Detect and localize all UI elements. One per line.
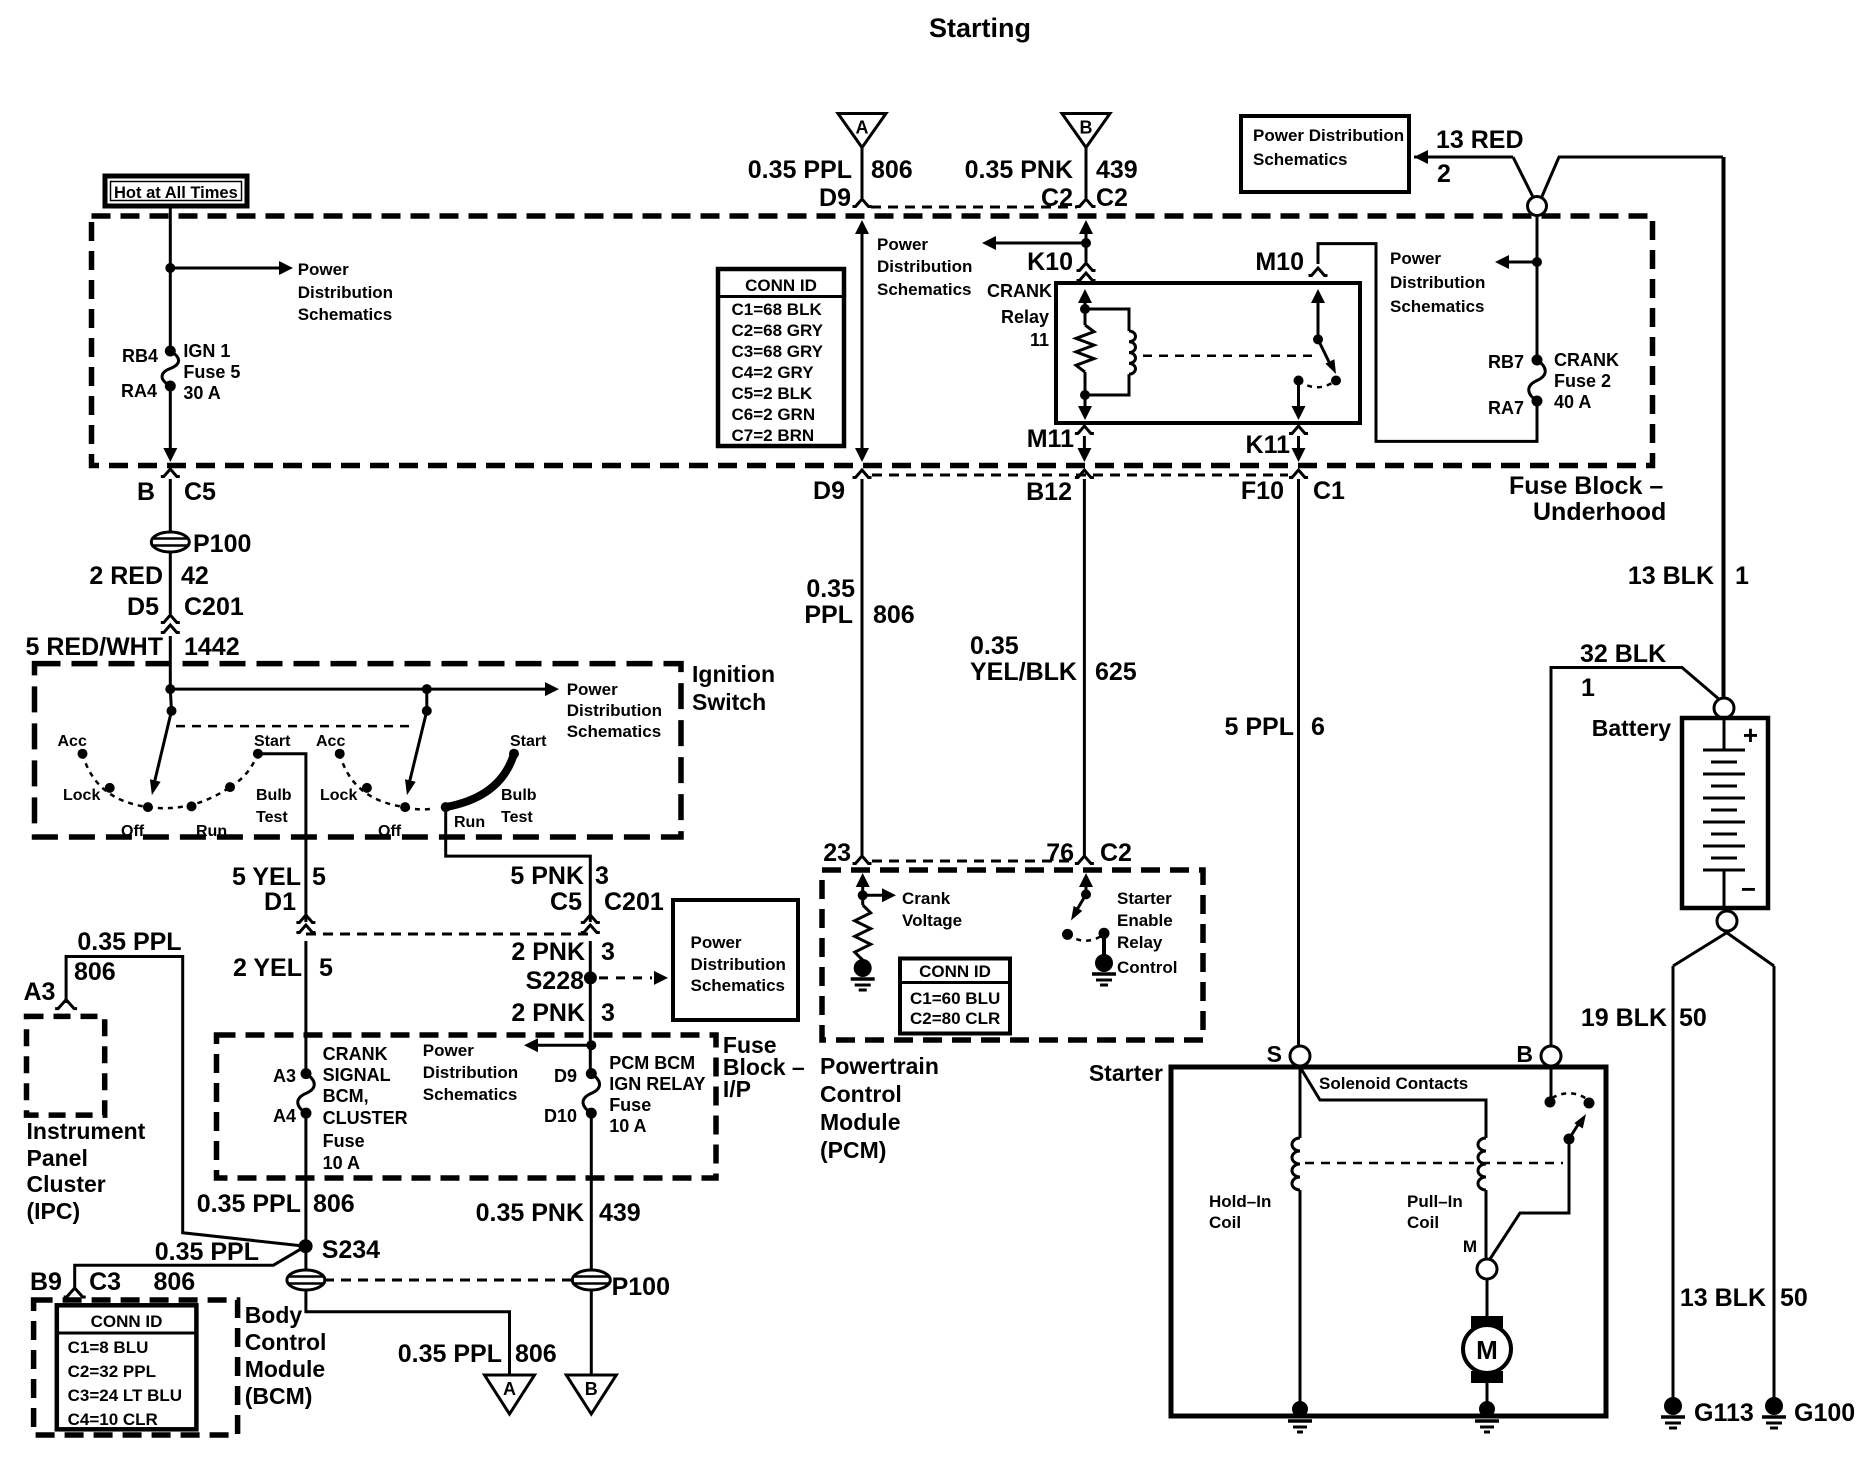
svg-text:M: M xyxy=(1463,1237,1477,1256)
svg-text:1442: 1442 xyxy=(184,633,240,661)
svg-text:D10: D10 xyxy=(544,1106,577,1126)
svg-text:76: 76 xyxy=(1046,839,1074,867)
svg-text:RB7: RB7 xyxy=(1488,352,1524,372)
svg-text:806: 806 xyxy=(74,958,116,986)
svg-text:C4=10 CLR: C4=10 CLR xyxy=(68,1410,158,1429)
svg-text:Power: Power xyxy=(298,260,349,279)
svg-text:13 RED: 13 RED xyxy=(1436,126,1524,154)
svg-text:Fuse Block –: Fuse Block – xyxy=(1509,472,1663,500)
svg-text:Distribution: Distribution xyxy=(1390,273,1485,292)
svg-text:Panel: Panel xyxy=(27,1145,88,1171)
svg-text:(BCM): (BCM) xyxy=(245,1383,313,1409)
svg-text:D9: D9 xyxy=(813,477,845,505)
svg-text:Schematics: Schematics xyxy=(567,722,662,741)
svg-text:42: 42 xyxy=(181,562,209,590)
svg-text:Test: Test xyxy=(501,809,533,826)
svg-text:439: 439 xyxy=(1096,156,1138,184)
svg-text:3: 3 xyxy=(601,938,615,966)
svg-text:G113: G113 xyxy=(1694,1399,1754,1427)
svg-text:Distribution: Distribution xyxy=(877,257,972,276)
svg-text:F10: F10 xyxy=(1241,477,1284,505)
svg-text:S: S xyxy=(1267,1041,1282,1067)
svg-text:Start: Start xyxy=(510,733,547,750)
svg-text:Power: Power xyxy=(1390,249,1441,268)
svg-text:B: B xyxy=(1516,1041,1533,1067)
svg-text:5 YEL: 5 YEL xyxy=(232,863,301,891)
svg-text:RB4: RB4 xyxy=(122,346,158,366)
svg-text:Pull–In: Pull–In xyxy=(1407,1192,1463,1211)
svg-text:Powertrain: Powertrain xyxy=(820,1053,939,1079)
svg-text:32 BLK: 32 BLK xyxy=(1580,640,1666,668)
svg-text:Enable: Enable xyxy=(1117,911,1173,930)
svg-text:5 PPL: 5 PPL xyxy=(1225,713,1294,741)
svg-text:10 A: 10 A xyxy=(323,1153,360,1173)
svg-text:RA7: RA7 xyxy=(1488,398,1524,418)
svg-text:CONN ID: CONN ID xyxy=(745,276,817,295)
svg-text:10 A: 10 A xyxy=(609,1116,646,1136)
svg-text:30 A: 30 A xyxy=(183,383,220,403)
svg-text:D5: D5 xyxy=(127,593,159,621)
svg-text:D9: D9 xyxy=(554,1066,577,1086)
svg-text:Acc: Acc xyxy=(316,733,345,750)
svg-text:Fuse: Fuse xyxy=(609,1095,651,1115)
svg-text:806: 806 xyxy=(154,1268,196,1296)
svg-text:0.35 PNK: 0.35 PNK xyxy=(476,1199,584,1227)
svg-text:Off: Off xyxy=(378,823,402,840)
svg-text:Crank: Crank xyxy=(902,889,951,908)
svg-text:Switch: Switch xyxy=(692,689,766,715)
svg-text:+: + xyxy=(1743,720,1758,750)
svg-text:Bulb: Bulb xyxy=(256,787,292,804)
svg-text:YEL/BLK: YEL/BLK xyxy=(970,658,1077,686)
svg-text:2 PNK: 2 PNK xyxy=(511,999,585,1027)
svg-text:C201: C201 xyxy=(604,888,664,916)
svg-text:625: 625 xyxy=(1095,658,1137,686)
svg-text:2 RED: 2 RED xyxy=(89,562,163,590)
svg-text:3: 3 xyxy=(595,862,609,890)
svg-text:Distribution: Distribution xyxy=(691,955,786,974)
svg-text:S228: S228 xyxy=(526,967,584,995)
svg-text:Fuse: Fuse xyxy=(323,1131,365,1151)
svg-text:(PCM): (PCM) xyxy=(820,1137,886,1163)
svg-text:M10: M10 xyxy=(1255,248,1304,276)
svg-text:2 PNK: 2 PNK xyxy=(511,938,585,966)
svg-text:C2: C2 xyxy=(1096,184,1128,212)
svg-text:A4: A4 xyxy=(273,1106,296,1126)
svg-text:G100: G100 xyxy=(1794,1399,1855,1427)
svg-text:5: 5 xyxy=(319,954,333,982)
svg-text:50: 50 xyxy=(1679,1004,1707,1032)
svg-text:Instrument: Instrument xyxy=(27,1118,146,1144)
svg-text:A: A xyxy=(856,118,869,138)
svg-text:Schematics: Schematics xyxy=(298,305,393,324)
svg-text:C1=68 BLK: C1=68 BLK xyxy=(732,300,823,319)
svg-text:23: 23 xyxy=(823,839,851,867)
svg-text:CRANK: CRANK xyxy=(987,281,1052,301)
svg-text:Lock: Lock xyxy=(320,787,357,804)
svg-text:Coil: Coil xyxy=(1209,1213,1241,1232)
svg-text:Ignition: Ignition xyxy=(692,661,775,687)
svg-text:439: 439 xyxy=(599,1199,641,1227)
svg-text:Cluster: Cluster xyxy=(27,1171,106,1197)
svg-text:PPL: PPL xyxy=(804,601,853,629)
svg-text:50: 50 xyxy=(1780,1284,1808,1312)
svg-text:0.35 PPL: 0.35 PPL xyxy=(748,156,852,184)
svg-text:Power: Power xyxy=(691,933,742,952)
svg-text:Battery: Battery xyxy=(1592,715,1671,741)
svg-text:C1: C1 xyxy=(1313,477,1345,505)
svg-text:Lock: Lock xyxy=(63,787,100,804)
svg-text:PCM BCM: PCM BCM xyxy=(609,1053,695,1073)
svg-text:Starter: Starter xyxy=(1089,1060,1163,1086)
svg-text:K10: K10 xyxy=(1027,248,1073,276)
svg-text:C5: C5 xyxy=(550,888,582,916)
svg-text:RA4: RA4 xyxy=(121,381,157,401)
svg-text:Off: Off xyxy=(121,823,145,840)
svg-text:0.35 PNK: 0.35 PNK xyxy=(965,156,1073,184)
svg-text:5: 5 xyxy=(312,863,326,891)
svg-text:S234: S234 xyxy=(322,1236,380,1264)
svg-text:IGN 1: IGN 1 xyxy=(183,341,230,361)
svg-text:2 YEL: 2 YEL xyxy=(233,954,302,982)
svg-text:Fuse 2: Fuse 2 xyxy=(1554,371,1611,391)
svg-text:3: 3 xyxy=(601,999,615,1027)
svg-text:2: 2 xyxy=(1437,160,1451,188)
svg-text:Power: Power xyxy=(423,1041,474,1060)
svg-text:Body: Body xyxy=(245,1302,303,1328)
svg-text:0.35 PPL: 0.35 PPL xyxy=(77,928,181,956)
svg-text:C2: C2 xyxy=(1100,839,1132,867)
svg-text:0.35 PPL: 0.35 PPL xyxy=(398,1340,502,1368)
svg-text:C3: C3 xyxy=(89,1268,121,1296)
svg-text:Schematics: Schematics xyxy=(1390,297,1485,316)
svg-text:(IPC): (IPC) xyxy=(27,1198,81,1224)
svg-text:C6=2 GRN: C6=2 GRN xyxy=(732,405,816,424)
svg-text:0.35 PPL: 0.35 PPL xyxy=(155,1238,259,1266)
svg-text:Schematics: Schematics xyxy=(691,976,786,995)
svg-text:C3=24 LT BLU: C3=24 LT BLU xyxy=(68,1386,182,1405)
svg-text:Power: Power xyxy=(567,680,618,699)
svg-text:A3: A3 xyxy=(24,978,56,1006)
svg-text:C201: C201 xyxy=(184,593,244,621)
svg-text:Power: Power xyxy=(877,235,928,254)
svg-text:C1=8 BLU: C1=8 BLU xyxy=(68,1338,149,1357)
svg-text:A: A xyxy=(503,1379,516,1399)
svg-text:11: 11 xyxy=(1030,330,1049,350)
svg-text:Distribution: Distribution xyxy=(298,283,393,302)
svg-text:Control: Control xyxy=(245,1329,327,1355)
svg-text:D1: D1 xyxy=(264,888,296,916)
svg-text:M: M xyxy=(1476,1335,1498,1365)
svg-text:CONN ID: CONN ID xyxy=(91,1312,163,1331)
svg-text:0.35 PPL: 0.35 PPL xyxy=(197,1190,301,1218)
svg-text:806: 806 xyxy=(873,601,915,629)
svg-text:M11: M11 xyxy=(1027,425,1074,453)
svg-text:CLUSTER: CLUSTER xyxy=(323,1108,408,1128)
svg-text:Start: Start xyxy=(254,733,291,750)
svg-text:Schematics: Schematics xyxy=(877,280,972,299)
svg-text:IGN RELAY: IGN RELAY xyxy=(609,1074,705,1094)
svg-text:Relay: Relay xyxy=(1117,933,1163,952)
svg-text:Distribution: Distribution xyxy=(423,1063,518,1082)
svg-text:C2=80 CLR: C2=80 CLR xyxy=(910,1009,1000,1028)
svg-text:Schematics: Schematics xyxy=(1253,150,1348,169)
svg-text:B: B xyxy=(1080,118,1093,138)
svg-text:6: 6 xyxy=(1311,713,1325,741)
svg-text:K11: K11 xyxy=(1246,431,1291,459)
svg-text:−: − xyxy=(1741,874,1756,904)
svg-text:CRANK: CRANK xyxy=(1554,350,1619,370)
svg-text:Solenoid Contacts: Solenoid Contacts xyxy=(1319,1074,1468,1093)
svg-text:806: 806 xyxy=(515,1340,557,1368)
svg-text:I/P: I/P xyxy=(723,1076,751,1102)
svg-text:CRANK: CRANK xyxy=(323,1044,388,1064)
svg-text:B9: B9 xyxy=(30,1268,62,1296)
svg-text:Fuse 5: Fuse 5 xyxy=(183,362,240,382)
svg-text:C5=2 BLK: C5=2 BLK xyxy=(732,384,813,403)
svg-text:C2=68 GRY: C2=68 GRY xyxy=(732,321,824,340)
svg-text:1: 1 xyxy=(1581,674,1595,702)
svg-text:13 BLK: 13 BLK xyxy=(1680,1284,1766,1312)
svg-text:P100: P100 xyxy=(612,1273,670,1301)
svg-text:19 BLK: 19 BLK xyxy=(1581,1004,1667,1032)
svg-text:C1=60 BLU: C1=60 BLU xyxy=(910,989,1000,1008)
svg-text:Module: Module xyxy=(245,1356,326,1382)
svg-text:Module: Module xyxy=(820,1109,901,1135)
svg-text:Hold–In: Hold–In xyxy=(1209,1192,1271,1211)
svg-text:Control: Control xyxy=(1117,958,1177,977)
svg-text:806: 806 xyxy=(313,1190,355,1218)
svg-text:Starter: Starter xyxy=(1117,889,1172,908)
svg-text:SIGNAL: SIGNAL xyxy=(323,1065,391,1085)
svg-text:BCM,: BCM, xyxy=(323,1086,369,1106)
svg-text:5 RED/WHT: 5 RED/WHT xyxy=(26,633,164,661)
svg-text:0.35: 0.35 xyxy=(806,575,855,603)
svg-text:C4=2 GRY: C4=2 GRY xyxy=(732,363,815,382)
svg-text:CONN ID: CONN ID xyxy=(919,962,991,981)
svg-text:B12: B12 xyxy=(1026,478,1072,506)
svg-text:C7=2 BRN: C7=2 BRN xyxy=(732,426,815,445)
svg-text:Acc: Acc xyxy=(58,733,87,750)
svg-text:Power Distribution: Power Distribution xyxy=(1253,126,1404,145)
svg-text:Bulb: Bulb xyxy=(501,787,537,804)
svg-text:Distribution: Distribution xyxy=(567,701,662,720)
svg-text:Starting: Starting xyxy=(929,13,1031,43)
svg-text:D9: D9 xyxy=(819,184,851,212)
svg-text:Run: Run xyxy=(454,814,485,831)
svg-text:Test: Test xyxy=(256,809,288,826)
svg-text:0.35: 0.35 xyxy=(970,632,1019,660)
svg-text:A3: A3 xyxy=(273,1066,296,1086)
svg-text:Relay: Relay xyxy=(1001,307,1049,327)
svg-text:B: B xyxy=(137,478,155,506)
svg-text:B: B xyxy=(585,1379,598,1399)
svg-text:13 BLK: 13 BLK xyxy=(1628,562,1714,590)
svg-text:Run: Run xyxy=(196,823,227,840)
svg-text:40 A: 40 A xyxy=(1554,392,1591,412)
svg-text:C5: C5 xyxy=(184,478,216,506)
svg-text:Voltage: Voltage xyxy=(902,911,962,930)
svg-text:Hot at All Times: Hot at All Times xyxy=(114,184,238,202)
svg-text:C3=68 GRY: C3=68 GRY xyxy=(732,342,824,361)
svg-text:C2=32 PPL: C2=32 PPL xyxy=(68,1362,156,1381)
svg-text:Underhood: Underhood xyxy=(1533,498,1666,526)
svg-text:5 PNK: 5 PNK xyxy=(510,862,584,890)
svg-text:1: 1 xyxy=(1735,562,1749,590)
svg-text:Coil: Coil xyxy=(1407,1213,1439,1232)
svg-text:Control: Control xyxy=(820,1081,902,1107)
svg-text:806: 806 xyxy=(871,156,913,184)
svg-text:Schematics: Schematics xyxy=(423,1085,518,1104)
svg-text:P100: P100 xyxy=(193,530,251,558)
